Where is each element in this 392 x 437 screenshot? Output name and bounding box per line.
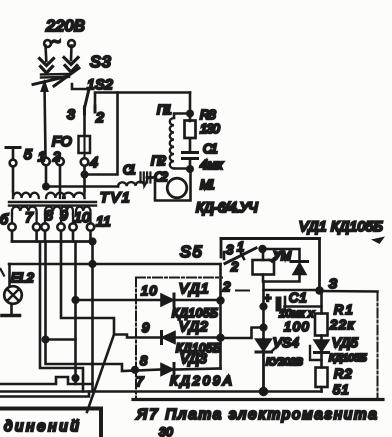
resistor R8 (185, 121, 196, 139)
svg-text:КД-6/4.УЧ: КД-6/4.УЧ (196, 199, 258, 215)
wire bottom y396 (0, 392, 89, 397)
wire comb to motor box (147, 176, 155, 179)
svg-text:КУ202В: КУ202В (266, 356, 303, 368)
svg-text:7: 7 (25, 209, 34, 225)
board vertical line pins node (219, 264, 222, 369)
diode VD5 (320, 336, 323, 341)
svg-text:С1: С1 (203, 141, 218, 156)
wire coil bottom to junction (174, 167, 190, 170)
svg-text:8: 8 (45, 207, 53, 223)
transformer TV1 primary winding (13, 193, 39, 198)
svg-text:51: 51 (333, 382, 349, 397)
winding P1 P2 vertical coil (174, 114, 190, 119)
wire S5 right vertical to node 3 (318, 239, 321, 292)
wire hop bottom left (0, 377, 93, 384)
thyristor VS4 gate (272, 343, 282, 352)
node 220V input terminal left (44, 40, 51, 47)
node terminal 8 (41, 223, 48, 230)
wire VD2 to node (175, 336, 221, 339)
svg-text:9: 9 (142, 320, 150, 335)
svg-text:УМ: УМ (272, 249, 291, 263)
node terminal 4 (81, 158, 89, 166)
gate network wire (310, 346, 322, 360)
transformer TV1 secondary winding (12, 207, 37, 214)
junction terminal1 node (43, 184, 48, 189)
svg-text:S3: S3 (90, 54, 111, 71)
thyristor VS4 (262, 339, 265, 392)
switch S3 left arrow wire (44, 46, 47, 62)
svg-text:EL2: EL2 (11, 270, 34, 285)
left edge tick (1, 269, 5, 276)
wire node3 left to relay line (264, 289, 320, 292)
switch S5 blade (225, 248, 256, 264)
svg-text:10: 10 (141, 283, 157, 298)
switch S3 blade left (33, 77, 67, 85)
svg-text:5: 5 (24, 146, 32, 162)
lamp EL2 lower lead and chassis (10, 304, 13, 314)
svg-text:30: 30 (159, 425, 173, 437)
junction x45 y339 (43, 337, 48, 342)
motor branch wire top (189, 93, 192, 122)
bundle vertical x45 (46, 243, 137, 371)
switch 1S2 blade (85, 89, 90, 108)
svg-text:1: 1 (237, 239, 245, 254)
wire to motor connector with loops (46, 185, 118, 188)
relay UM coil box (253, 260, 275, 275)
junction node 2 (218, 298, 224, 304)
svg-text:2: 2 (95, 109, 104, 125)
svg-text:9: 9 (60, 207, 68, 223)
svg-text:100: 100 (284, 319, 309, 334)
bundle vertical x92 (91, 243, 94, 392)
junction lamp wire (90, 261, 96, 267)
svg-text:220В: 220В (45, 18, 85, 35)
svg-text:130: 130 (200, 121, 220, 136)
node terminal 11 (87, 223, 94, 230)
svg-text:R1: R1 (334, 302, 353, 317)
svg-text:R8: R8 (200, 107, 216, 122)
switch S3 right arrow wire (70, 46, 73, 61)
junction S5 blade dot (260, 246, 266, 252)
chassis bar above terminal 5 (6, 146, 20, 149)
node terminal 5 (10, 160, 17, 167)
wire bottom y391 (0, 390, 262, 393)
svg-text:П2: П2 (151, 153, 166, 168)
board A7 outline dash-dot (136, 278, 378, 400)
wire S3 left pole down to terminal 1 with up arrowhead (45, 84, 46, 158)
svg-text:4мк: 4мк (200, 157, 224, 172)
secondary terminal legs (12, 214, 91, 224)
wire contact 3 down to fuse (83, 114, 86, 136)
wire VD1 to node (175, 299, 221, 302)
board A7 bottom edge (133, 398, 383, 401)
svg-text:С1: С1 (289, 290, 307, 305)
1S2 contact 3 tick (83, 107, 86, 114)
svg-text:4: 4 (90, 154, 98, 170)
wire terminal4 down to node (83, 166, 86, 191)
svg-text:Я7 Плата электромагнита: Я7 Плата электромагнита (136, 406, 377, 423)
bundle vertical x61 wire 9 (61, 243, 161, 338)
svg-text:VД1: VД1 (179, 280, 209, 296)
pencil arrow mark (371, 237, 385, 245)
label UM checkmark (269, 252, 278, 262)
wire terminal5 to primary (12, 167, 15, 192)
wire node3 right to board edge (320, 290, 378, 293)
node terminal 6 (8, 223, 15, 230)
relay bottom wire (263, 275, 300, 282)
bundle vertical x75 wire 10 (74, 243, 77, 384)
svg-text:2: 2 (230, 259, 239, 274)
capacitor C1 motor (183, 153, 198, 159)
svg-text:~: ~ (52, 34, 61, 51)
svg-text:VД2: VД2 (179, 318, 208, 334)
wire C1 from terminal4 node right and up to motor feed (85, 93, 118, 175)
wire terminal2 down to primary (59, 166, 62, 192)
wire x45 to x75 (46, 338, 76, 341)
svg-text:З: З (329, 276, 337, 291)
wire 8 into board (136, 370, 161, 371)
svg-text:22к: 22к (329, 317, 355, 332)
svg-text:8: 8 (140, 353, 148, 368)
wire 10 horizontal (76, 299, 162, 302)
connector comb ticks (141, 173, 151, 183)
junction x75 low (73, 375, 79, 381)
junction node 3 (317, 288, 323, 294)
svg-text:3: 3 (226, 242, 234, 257)
diode VD4 flyback (291, 260, 308, 263)
relay UM feed wires (263, 249, 300, 262)
lamp EL2 feed wire (9, 263, 221, 266)
junction terminal4 node (82, 172, 87, 177)
svg-text:КД105Б: КД105Б (329, 352, 367, 364)
motor M1 circle (167, 178, 187, 198)
svg-text:7: 7 (136, 374, 144, 389)
node terminal 7 (33, 223, 40, 230)
node terminal 9 (57, 223, 64, 230)
svg-text:11: 11 (96, 213, 111, 229)
wire C1 down (189, 159, 192, 170)
1S2 contact 2 tick (94, 106, 97, 112)
bundle vertical x40 (40, 243, 83, 392)
node terminal 1 (42, 158, 50, 166)
svg-text:2: 2 (222, 279, 231, 294)
svg-text:VS4: VS4 (273, 335, 299, 350)
connection table box (0, 409, 101, 437)
junction C1 plus tap (261, 304, 267, 310)
svg-text:FО: FО (52, 133, 72, 149)
junction VD2 node (218, 335, 224, 341)
wire 1S2 contact 2 up and right to motor branch (95, 93, 190, 107)
switch S3 link bar (41, 74, 69, 78)
svg-text:R2: R2 (334, 366, 352, 381)
svg-text:3: 3 (67, 106, 75, 122)
node terminal 2 (56, 158, 64, 166)
switch S3 blade right (54, 68, 79, 86)
svg-text:+: + (264, 291, 271, 305)
junction motor branch top (187, 111, 192, 116)
wire bottom bus to R2 (264, 390, 322, 393)
diode VD3 (161, 364, 174, 376)
wire R8 to C1 (189, 139, 192, 153)
svg-text:VД5: VД5 (332, 335, 358, 350)
svg-text:1S2: 1S2 (87, 76, 113, 92)
svg-text:VД1 КД105Б: VД1 КД105Б (299, 218, 383, 234)
transformer TV1 core (9, 202, 96, 206)
wire relay bottom down (262, 282, 265, 340)
junction motor branch bottom (187, 166, 192, 171)
svg-text:VД3: VД3 (180, 350, 207, 366)
svg-text:М1: М1 (200, 177, 215, 192)
wire S3 right pole down then right to 1S2 (72, 84, 89, 89)
svg-text:С1: С1 (123, 162, 136, 177)
resistor R2 (316, 368, 328, 388)
svg-text:10: 10 (74, 209, 90, 225)
pin 2 stub dash (236, 290, 249, 292)
junction wire10 (73, 297, 79, 303)
capacitor C1 electrolytic (276, 297, 282, 312)
switch S5 left vertical (220, 239, 223, 258)
junction bus right (90, 239, 96, 245)
secondary bottom bus (12, 231, 91, 242)
diode VD2 (160, 332, 163, 344)
diode VD1 (161, 294, 174, 306)
junction VS4 cathode bottom (260, 388, 267, 395)
motor box (147, 169, 191, 201)
switch S5 top wire (221, 237, 320, 240)
resistor R1 (320, 291, 323, 314)
lamp EL2 (8, 264, 11, 287)
S5 contact ticks (224, 252, 244, 259)
svg-text:П1: П1 (157, 102, 172, 117)
node 220V input terminal right (68, 40, 75, 47)
fuse FO body (79, 136, 91, 153)
wire terminal1 down to node (45, 166, 48, 188)
wire jog to VD2 node (221, 328, 264, 339)
wire VD3 to vertical corner (175, 369, 221, 370)
node terminal 10 (69, 223, 76, 230)
svg-text:TV1: TV1 (100, 189, 130, 205)
wire slant to bottom box (87, 335, 114, 413)
junction jog tap (261, 325, 267, 331)
